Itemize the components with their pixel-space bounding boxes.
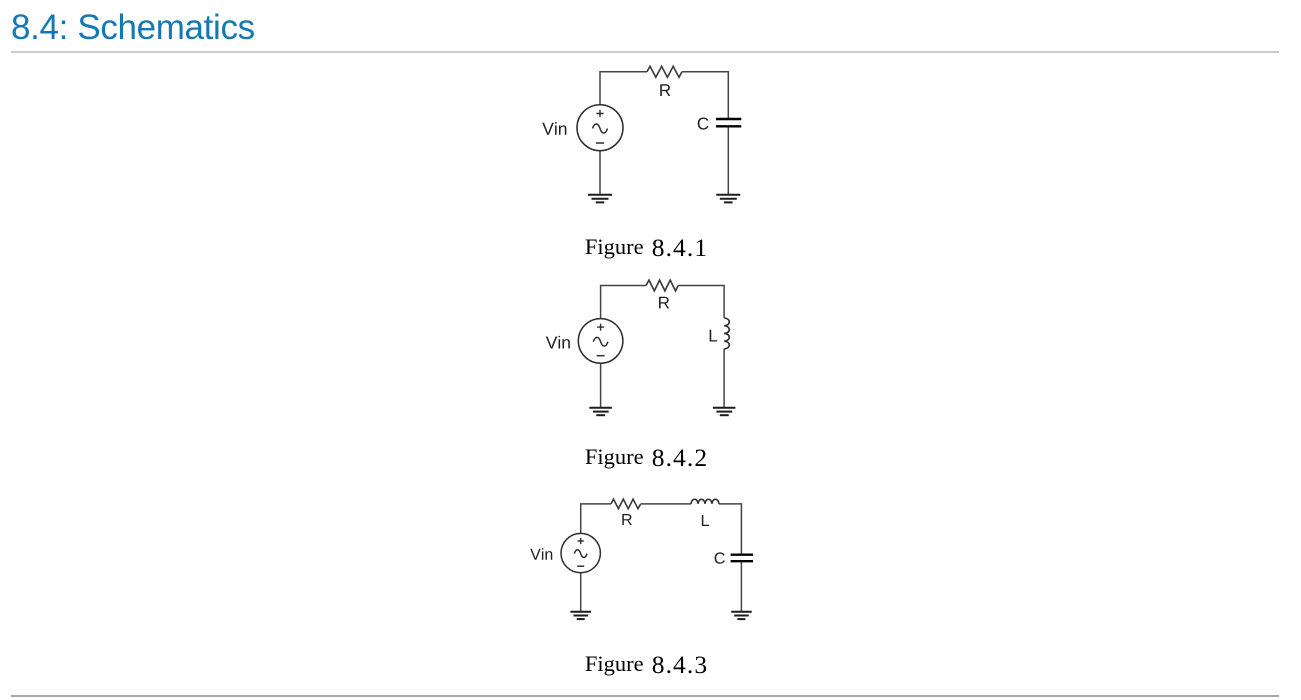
wire source bottom to ground: [580, 573, 582, 612]
sine symbol: [574, 550, 587, 558]
label R (fig 2): [659, 297, 669, 309]
wire top-right to inductor: [678, 286, 724, 319]
wire top-left vertical (source to top rail): [600, 72, 647, 105]
+ polarity mark: [578, 538, 584, 544]
wire top-left vertical (source to top rail): [601, 286, 646, 319]
ground (fig 3, under capacitor): [731, 612, 752, 619]
wire inductor bottom to ground: [723, 349, 725, 408]
label L (fig 2): [710, 330, 717, 342]
wire capacitor bottom to ground: [740, 562, 742, 611]
wire top-right to capacitor: [682, 72, 728, 118]
resistor R: [611, 499, 641, 509]
- polarity mark: [596, 142, 604, 144]
sine symbol: [593, 124, 608, 133]
capacitor C (fig 1): [716, 119, 741, 126]
ground (fig 2, under source): [589, 408, 612, 415]
caption Figure 8.4.3: [0, 652, 1292, 678]
inductor L (fig 2): [724, 318, 729, 349]
label C (fig 3): [715, 552, 725, 563]
wire capacitor bottom to ground: [727, 127, 729, 194]
caption Figure 8.4.2: [0, 445, 1292, 471]
ground (fig 1, under source): [588, 195, 612, 203]
resistor R: [646, 280, 678, 291]
wire between resistor and inductor: [641, 503, 691, 505]
caption Figure 8.4.1: [0, 235, 1292, 261]
ground (fig 2, under inductor): [713, 408, 736, 415]
AC source Vin (fig 1): [577, 105, 623, 151]
page title: [11, 10, 255, 45]
ground (fig 1, under capacitor): [716, 195, 740, 203]
inductor L (fig 3, horizontal): [691, 499, 719, 504]
AC source Vin (fig 3): [561, 533, 600, 572]
label R (fig 1): [660, 84, 670, 96]
wire source bottom to ground: [599, 151, 601, 195]
label R (fig 3): [622, 514, 631, 525]
title underline rule: [11, 51, 1279, 53]
label Vin (fig 3): [530, 548, 552, 560]
- polarity mark: [597, 355, 605, 357]
- polarity mark: [577, 565, 584, 567]
label Vin (fig 1): [542, 122, 566, 135]
sine symbol: [593, 337, 608, 346]
AC source Vin (fig 2): [578, 319, 623, 364]
label C (fig 1): [698, 118, 709, 130]
footer rule: [11, 695, 1279, 697]
+ polarity mark: [596, 110, 603, 117]
resistor R: [647, 66, 682, 77]
wire source bottom to ground: [600, 363, 602, 407]
capacitor C (fig 3): [731, 555, 753, 562]
ground (fig 3, under source): [571, 612, 592, 619]
wire top-left vertical (source to top rail): [581, 504, 611, 534]
label L (fig 3): [702, 515, 709, 526]
wire inductor to capacitor top: [719, 504, 742, 554]
+ polarity mark: [597, 324, 604, 331]
label Vin (fig 2): [546, 336, 570, 349]
